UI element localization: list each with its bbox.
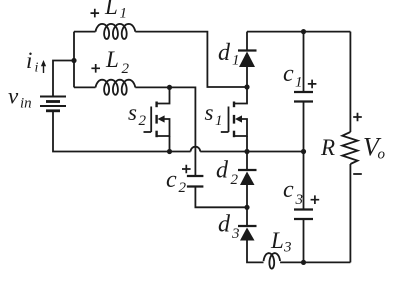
diode d2 cathode bar xyxy=(238,169,257,171)
node A xyxy=(71,58,76,63)
svg-text:2: 2 xyxy=(122,61,130,77)
wire bottom rail xyxy=(280,261,350,263)
node s2 source xyxy=(167,149,172,154)
node X1 xyxy=(244,84,249,89)
svg-text:3: 3 xyxy=(283,240,292,256)
svg-text:d: d xyxy=(218,212,231,238)
diode d1 cathode bar xyxy=(238,49,257,51)
capacitor c3 plates xyxy=(294,208,313,210)
svg-text:1: 1 xyxy=(232,53,240,69)
svg-text:R: R xyxy=(320,135,335,160)
plus sign L1 xyxy=(91,9,100,18)
wire xyxy=(200,151,303,153)
capacitor c3 bottom lead xyxy=(303,219,305,262)
inductor L2 coil xyxy=(96,80,136,95)
diode d2 top wire xyxy=(246,152,248,171)
resistor R zigzag xyxy=(342,132,357,164)
diode d3 top wire xyxy=(246,207,248,226)
svg-text:1: 1 xyxy=(295,75,303,91)
node s1 source xyxy=(244,149,249,154)
capacitor c1 plates xyxy=(294,91,313,93)
diode d3 triangle xyxy=(240,228,255,241)
wire xyxy=(246,184,248,207)
svg-text:d: d xyxy=(216,158,229,184)
battery vin plate long top xyxy=(40,96,66,98)
svg-text:3: 3 xyxy=(295,192,304,208)
svg-text:v: v xyxy=(8,84,19,109)
svg-text:2: 2 xyxy=(139,113,147,129)
minus sign output xyxy=(353,173,362,175)
wire xyxy=(247,240,264,263)
wire xyxy=(135,32,247,87)
svg-text:L: L xyxy=(270,228,284,253)
svg-text:in: in xyxy=(20,96,32,112)
node L2-s2 drain xyxy=(167,85,172,90)
transistor s1 gate lead xyxy=(221,131,229,133)
wire L1 branch left xyxy=(74,31,96,33)
battery vin plate short xyxy=(46,100,60,103)
transistor s2 body arrow xyxy=(158,115,165,122)
svg-text:2: 2 xyxy=(179,180,187,196)
wire L2 branch left xyxy=(74,86,96,88)
svg-text:c: c xyxy=(283,61,294,87)
svg-text:c: c xyxy=(283,177,294,203)
diode d1 cathode wire xyxy=(246,32,248,51)
svg-text:1: 1 xyxy=(120,6,128,22)
transistor s2 channel segments xyxy=(155,102,157,108)
transistor s1 body arrow xyxy=(235,115,242,122)
wire right edge bottom xyxy=(349,164,351,262)
transistor s1 source lead xyxy=(246,136,248,152)
transistor s2 source lead xyxy=(169,136,171,152)
wire right edge top xyxy=(349,32,351,132)
capacitor c1 bottom lead xyxy=(303,102,305,152)
diode d3 cathode bar xyxy=(238,225,257,227)
svg-text:3: 3 xyxy=(231,226,240,242)
capacitor c3 top lead xyxy=(303,152,305,210)
capacitor c2 plates xyxy=(187,175,204,177)
wire xyxy=(53,61,74,97)
current arrow i_i xyxy=(43,63,45,73)
transistor s2 drain lead xyxy=(157,87,170,103)
battery vin plate short bottom xyxy=(46,109,60,112)
svg-text:L: L xyxy=(105,47,119,72)
svg-text:s: s xyxy=(128,100,137,125)
node mid rail right xyxy=(301,149,306,154)
svg-text:o: o xyxy=(378,147,386,163)
battery vin plate long xyxy=(40,105,66,107)
inductor L1 coil xyxy=(96,24,136,39)
wire top rail xyxy=(247,31,350,33)
transistor s2 gate lead xyxy=(144,131,152,133)
svg-text:i: i xyxy=(35,61,39,76)
transistor s1 drain lead xyxy=(234,87,247,104)
diode d2 triangle xyxy=(240,172,255,186)
plus sign L2 xyxy=(91,64,100,73)
svg-text:d: d xyxy=(218,40,231,66)
svg-text:i: i xyxy=(26,48,32,73)
transistor s2 gate bar xyxy=(150,107,152,133)
wire xyxy=(246,66,248,87)
svg-text:1: 1 xyxy=(215,113,223,129)
svg-text:c: c xyxy=(166,167,177,193)
capacitor c2 bottom lead xyxy=(195,187,247,208)
plus sign output xyxy=(353,113,362,122)
wire xyxy=(53,111,191,152)
plus sign c3 xyxy=(311,195,320,204)
svg-text:s: s xyxy=(205,100,214,125)
svg-text:L: L xyxy=(104,0,118,19)
node c3 bottom xyxy=(301,260,306,265)
transistor s1 channel segments xyxy=(233,102,235,108)
inductor L3 coil xyxy=(264,253,281,269)
transistor s1 gate bar xyxy=(228,107,230,133)
node c1 top xyxy=(301,29,306,34)
wire xyxy=(73,32,75,88)
svg-text:2: 2 xyxy=(231,172,239,188)
wire hop over c2 line xyxy=(191,147,201,152)
plus sign c1 xyxy=(308,80,317,89)
node d2-d3-c2 xyxy=(244,205,249,210)
diode d1 triangle xyxy=(239,52,255,68)
plus sign c2 xyxy=(182,165,191,174)
capacitor c1 top lead xyxy=(303,32,305,92)
wire xyxy=(135,87,195,176)
